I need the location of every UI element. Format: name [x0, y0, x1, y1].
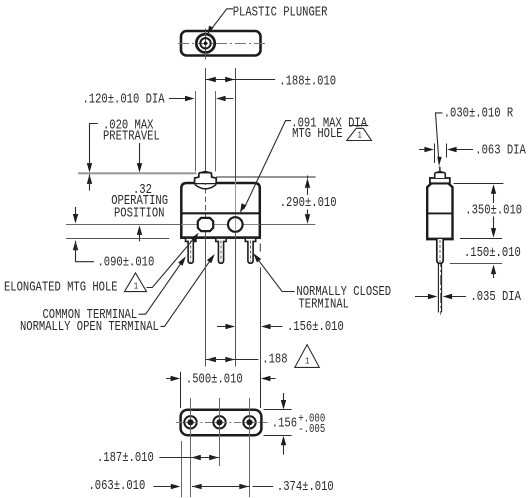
svg-text:1: 1	[134, 281, 138, 292]
svg-text:.188±.010: .188±.010	[279, 73, 336, 89]
svg-text:.156±.010: .156±.010	[287, 319, 344, 335]
svg-text:.187±.010: .187±.010	[97, 450, 154, 466]
svg-text:PLASTIC PLUNGER: PLASTIC PLUNGER	[233, 4, 328, 20]
svg-text:.063±.010: .063±.010	[89, 478, 146, 494]
svg-text:.063 DIA: .063 DIA	[475, 142, 526, 158]
svg-text:PRETRAVEL: PRETRAVEL	[103, 128, 160, 144]
svg-text:.350±.010: .350±.010	[465, 202, 522, 218]
svg-text:MTG HOLE: MTG HOLE	[292, 126, 343, 142]
svg-text:1: 1	[358, 131, 362, 141]
svg-text:.120±.010 DIA: .120±.010 DIA	[83, 91, 166, 107]
svg-text:.090±.010: .090±.010	[98, 255, 155, 271]
svg-text:.500±.010: .500±.010	[186, 371, 243, 387]
svg-text:1: 1	[305, 356, 309, 367]
svg-text:TERMINAL: TERMINAL	[299, 296, 350, 312]
svg-text:.290±.010: .290±.010	[280, 195, 337, 211]
svg-text:.374±.010: .374±.010	[277, 479, 334, 495]
svg-text:ELONGATED MTG HOLE: ELONGATED MTG HOLE	[4, 279, 118, 295]
svg-text:.156: .156	[272, 416, 297, 432]
svg-text:-.005: -.005	[298, 423, 325, 437]
svg-text:NORMALLY OPEN TERMINAL: NORMALLY OPEN TERMINAL	[20, 319, 159, 335]
svg-text:.030±.010 R: .030±.010 R	[444, 106, 513, 122]
svg-text:.188: .188	[262, 351, 287, 367]
svg-text:POSITION: POSITION	[114, 205, 165, 221]
svg-text:.150±.010: .150±.010	[464, 245, 521, 261]
svg-text:.035 DIA: .035 DIA	[470, 289, 521, 305]
